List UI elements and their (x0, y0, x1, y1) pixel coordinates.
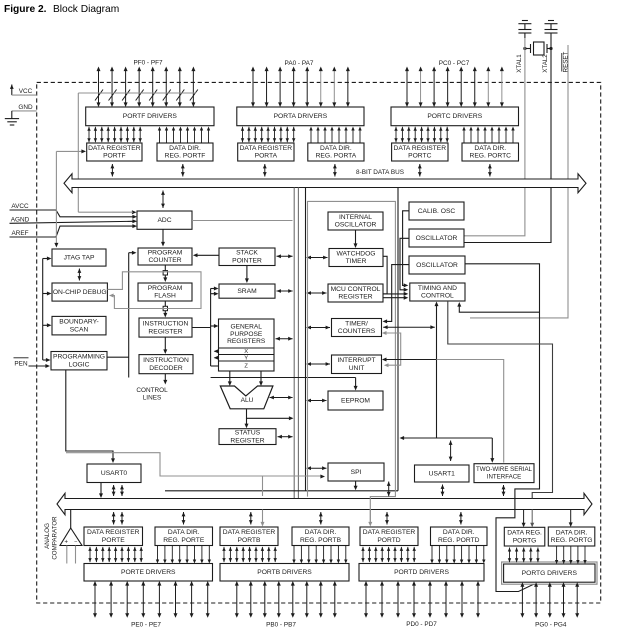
svg-text:+: + (64, 538, 68, 545)
svg-text:PORTB: PORTB (238, 537, 261, 544)
svg-text:PB0 - PB7: PB0 - PB7 (266, 622, 296, 629)
svg-text:DATA REG.: DATA REG. (507, 530, 542, 537)
svg-text:DATA DIR.: DATA DIR. (320, 145, 352, 152)
svg-text:TIMER/: TIMER/ (345, 320, 368, 327)
svg-text:REG. PORTB: REG. PORTB (300, 537, 342, 544)
svg-text:ADC: ADC (157, 217, 171, 224)
svg-text:PORTG: PORTG (513, 537, 537, 544)
svg-text:CALIB. OSC: CALIB. OSC (418, 208, 456, 215)
svg-text:XTAL1: XTAL1 (516, 54, 523, 73)
svg-text:CONTROL: CONTROL (136, 387, 168, 394)
svg-text:−: − (74, 540, 77, 546)
svg-text:DATA DIR.: DATA DIR. (474, 145, 506, 152)
svg-text:INTERNAL: INTERNAL (339, 214, 372, 221)
svg-text:DATA REGISTER: DATA REGISTER (363, 529, 416, 536)
svg-text:REG. PORTC: REG. PORTC (470, 153, 512, 160)
svg-text:PROGRAM: PROGRAM (148, 285, 183, 292)
svg-text:PORTC: PORTC (408, 153, 431, 160)
svg-text:INTERFACE: INTERFACE (487, 474, 521, 481)
svg-text:VCC: VCC (19, 88, 33, 95)
svg-text:PORTE DRIVERS: PORTE DRIVERS (121, 569, 176, 576)
svg-text:DATA REGISTER: DATA REGISTER (240, 145, 293, 152)
svg-text:PA0 - PA7: PA0 - PA7 (285, 60, 314, 67)
svg-text:SPI: SPI (351, 469, 362, 476)
svg-text:LOGIC: LOGIC (69, 361, 90, 368)
svg-text:REGISTER: REGISTER (230, 437, 264, 444)
svg-text:COUNTER: COUNTER (148, 257, 181, 264)
svg-text:INSTRUCTION: INSTRUCTION (143, 320, 189, 327)
svg-text:REG. PORTA: REG. PORTA (316, 153, 357, 160)
svg-text:DATA DIR.: DATA DIR. (443, 529, 475, 536)
svg-text:PROGRAMMING: PROGRAMMING (53, 354, 105, 361)
svg-text:SCAN: SCAN (70, 326, 89, 333)
svg-text:PG0 - PG4: PG0 - PG4 (535, 622, 567, 629)
svg-text:PEN: PEN (14, 360, 28, 367)
svg-text:PORTC DRIVERS: PORTC DRIVERS (427, 113, 482, 120)
svg-text:REG. PORTE: REG. PORTE (163, 537, 205, 544)
svg-text:DATA DIR.: DATA DIR. (168, 529, 200, 536)
svg-text:PORTA DRIVERS: PORTA DRIVERS (274, 113, 328, 120)
svg-text:Figure 2.Block Diagram: Figure 2.Block Diagram (4, 3, 119, 14)
svg-text:DATA REGISTER: DATA REGISTER (87, 529, 140, 536)
svg-text:DATA REGISTER: DATA REGISTER (394, 145, 447, 152)
svg-text:WATCHDOG: WATCHDOG (336, 250, 375, 257)
svg-text:PORTE: PORTE (102, 537, 125, 544)
svg-text:DATA REGISTER: DATA REGISTER (88, 145, 141, 152)
svg-text:DATA DIR.: DATA DIR. (169, 145, 201, 152)
svg-text:REG. PORTG: REG. PORTG (551, 537, 593, 544)
svg-text:PORTA: PORTA (255, 153, 278, 160)
svg-text:ON-CHIP DEBUG: ON-CHIP DEBUG (53, 289, 107, 296)
svg-text:RESET: RESET (563, 51, 570, 72)
svg-text:OSCILLATOR: OSCILLATOR (335, 222, 377, 229)
svg-text:REGISTER: REGISTER (148, 328, 182, 335)
svg-text:OSCILLATOR: OSCILLATOR (416, 262, 458, 269)
svg-text:EEPROM: EEPROM (341, 397, 370, 404)
svg-text:FLASH: FLASH (154, 293, 176, 300)
svg-text:GND: GND (18, 104, 33, 111)
svg-text:DATA DIR.: DATA DIR. (556, 529, 588, 536)
svg-text:CONTROL: CONTROL (421, 293, 454, 300)
svg-text:PORTB DRIVERS: PORTB DRIVERS (257, 569, 312, 576)
svg-text:REG. PORTD: REG. PORTD (438, 537, 480, 544)
svg-text:GENERAL: GENERAL (230, 323, 262, 330)
svg-text:PORTD: PORTD (377, 537, 400, 544)
svg-text:PORTD DRIVERS: PORTD DRIVERS (394, 569, 449, 576)
svg-text:SRAM: SRAM (237, 288, 257, 295)
svg-text:UNIT: UNIT (349, 365, 365, 372)
svg-text:LINES: LINES (143, 394, 161, 401)
svg-text:Y: Y (244, 355, 248, 361)
svg-text:STATUS: STATUS (235, 429, 261, 436)
svg-text:Z: Z (244, 364, 248, 370)
svg-text:COUNTERS: COUNTERS (338, 328, 376, 335)
svg-text:ANALOG: ANALOG (44, 523, 51, 549)
svg-text:PURPOSE: PURPOSE (230, 331, 263, 338)
svg-text:PORTF DRIVERS: PORTF DRIVERS (123, 113, 178, 120)
svg-text:AREF: AREF (11, 230, 28, 237)
svg-text:BOUNDARY-: BOUNDARY- (59, 319, 98, 326)
svg-text:PROGRAM: PROGRAM (148, 249, 183, 256)
svg-text:PD0 - PD7: PD0 - PD7 (406, 621, 437, 628)
svg-text:JTAG TAP: JTAG TAP (64, 254, 95, 261)
svg-text:PF0 - PF7: PF0 - PF7 (133, 60, 163, 67)
svg-text:PC0 - PC7: PC0 - PC7 (439, 60, 470, 67)
svg-text:COMPARATOR: COMPARATOR (51, 516, 58, 560)
svg-text:X: X (244, 349, 248, 355)
svg-text:DATA REGISTER: DATA REGISTER (223, 529, 276, 536)
svg-text:8-BIT DATA BUS: 8-BIT DATA BUS (356, 169, 404, 176)
svg-text:USART1: USART1 (429, 470, 456, 477)
svg-text:DATA DIR.: DATA DIR. (305, 529, 337, 536)
svg-text:OSCILLATOR: OSCILLATOR (416, 235, 458, 242)
svg-text:PE0 - PE7: PE0 - PE7 (131, 622, 161, 629)
svg-text:XTAL2: XTAL2 (542, 54, 549, 73)
svg-text:ALU: ALU (241, 397, 254, 404)
svg-text:INSTRUCTION: INSTRUCTION (143, 357, 189, 364)
svg-text:REG. PORTF: REG. PORTF (165, 153, 206, 160)
svg-text:TWO-WIRE SERIAL: TWO-WIRE SERIAL (476, 466, 533, 473)
svg-text:PORTG DRIVERS: PORTG DRIVERS (522, 570, 578, 577)
svg-text:TIMER: TIMER (346, 258, 367, 265)
svg-text:REGISTERS: REGISTERS (227, 338, 266, 345)
svg-text:PORTF: PORTF (103, 153, 126, 160)
svg-text:USART0: USART0 (101, 470, 128, 477)
svg-text:STACK: STACK (236, 250, 258, 257)
svg-text:MCU CONTROL: MCU CONTROL (331, 286, 381, 293)
svg-text:INTERRUPT: INTERRUPT (337, 357, 375, 364)
svg-text:DECODER: DECODER (149, 365, 183, 372)
svg-text:REGISTER: REGISTER (338, 294, 372, 301)
svg-text:POINTER: POINTER (232, 257, 262, 264)
svg-text:AVCC: AVCC (11, 203, 29, 210)
svg-text:TIMING AND: TIMING AND (418, 285, 457, 292)
